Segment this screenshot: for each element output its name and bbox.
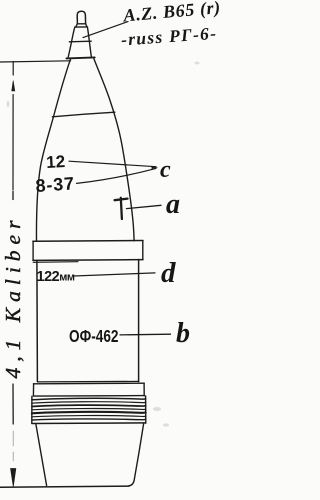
ogive left edge — [36, 59, 70, 241]
lower band left edge — [32, 384, 34, 396]
lower band top line — [34, 382, 145, 385]
driving band right edge — [145, 396, 147, 423]
dimension extension line top — [0, 61, 71, 62]
driving band rib 2 — [32, 402, 146, 403]
leader line to d — [74, 273, 155, 276]
boat tail right edge — [129, 424, 144, 486]
dimension line mid segment — [12, 95, 14, 191]
leader arrowhead at c — [152, 166, 158, 169]
leader line to fuze text — [83, 22, 128, 38]
body left edge — [36, 260, 39, 381]
fuze cone left edge — [68, 27, 75, 57]
base line with left extension — [0, 486, 129, 487]
driving band bottom line — [32, 422, 146, 425]
fuze cone ring line — [69, 40, 91, 43]
driving band rib 7 — [32, 419, 146, 420]
leader line to a — [127, 205, 162, 208]
upper bourrelet left edge — [32, 241, 34, 260]
svg-text:c: c — [160, 157, 171, 183]
boat tail left edge — [36, 424, 47, 485]
ogive right edge — [94, 59, 134, 241]
lower band bottom line — [33, 395, 144, 398]
fuze knob flange — [76, 24, 87, 27]
svg-text:ОФ-462: ОФ-462 — [69, 326, 119, 346]
fuze cone right edge — [87, 27, 91, 57]
lower band right edge — [143, 383, 145, 396]
dimension line faint dashes — [12, 431, 14, 461]
driving band rib 4 — [32, 409, 146, 410]
upper bourrelet band bottom line — [33, 259, 143, 262]
upper bourrelet right edge — [142, 241, 144, 260]
svg-text:b: b — [176, 318, 190, 349]
dimension line upper segment — [12, 62, 14, 76]
svg-text:8-37: 8-37 — [35, 173, 75, 196]
dimension arrowhead lower — [11, 469, 16, 487]
upper bourrelet bottom double line — [33, 261, 78, 264]
fuze base line — [66, 57, 94, 58]
svg-text:12: 12 — [46, 152, 66, 172]
driving band left edge — [31, 396, 33, 423]
driving band rib 1 — [32, 398, 146, 400]
svg-text:d: d — [161, 257, 176, 289]
driving band rib 3 — [32, 405, 146, 406]
dimension line lower segment — [12, 384, 14, 424]
fuze knob — [77, 11, 85, 23]
marking T — [115, 198, 128, 219]
ogive joint line — [52, 112, 115, 117]
driving band rib 6 — [32, 416, 146, 417]
dimension line dash above text — [12, 192, 14, 200]
body bottom line — [38, 380, 139, 383]
body right edge — [138, 260, 140, 382]
svg-text:4,1 Kaliber: 4,1 Kaliber — [1, 215, 25, 379]
fuze cone top line — [75, 26, 88, 28]
leader line from 12 to c — [69, 161, 156, 167]
svg-text:122мм: 122мм — [37, 269, 75, 285]
dimension arrowhead upper — [12, 81, 15, 92]
leader line to b — [120, 333, 171, 336]
driving band rib 5 — [32, 412, 146, 413]
upper bourrelet band top line — [33, 240, 143, 243]
leader line from 8-37 to c — [77, 168, 157, 183]
svg-text:a: a — [166, 189, 180, 220]
